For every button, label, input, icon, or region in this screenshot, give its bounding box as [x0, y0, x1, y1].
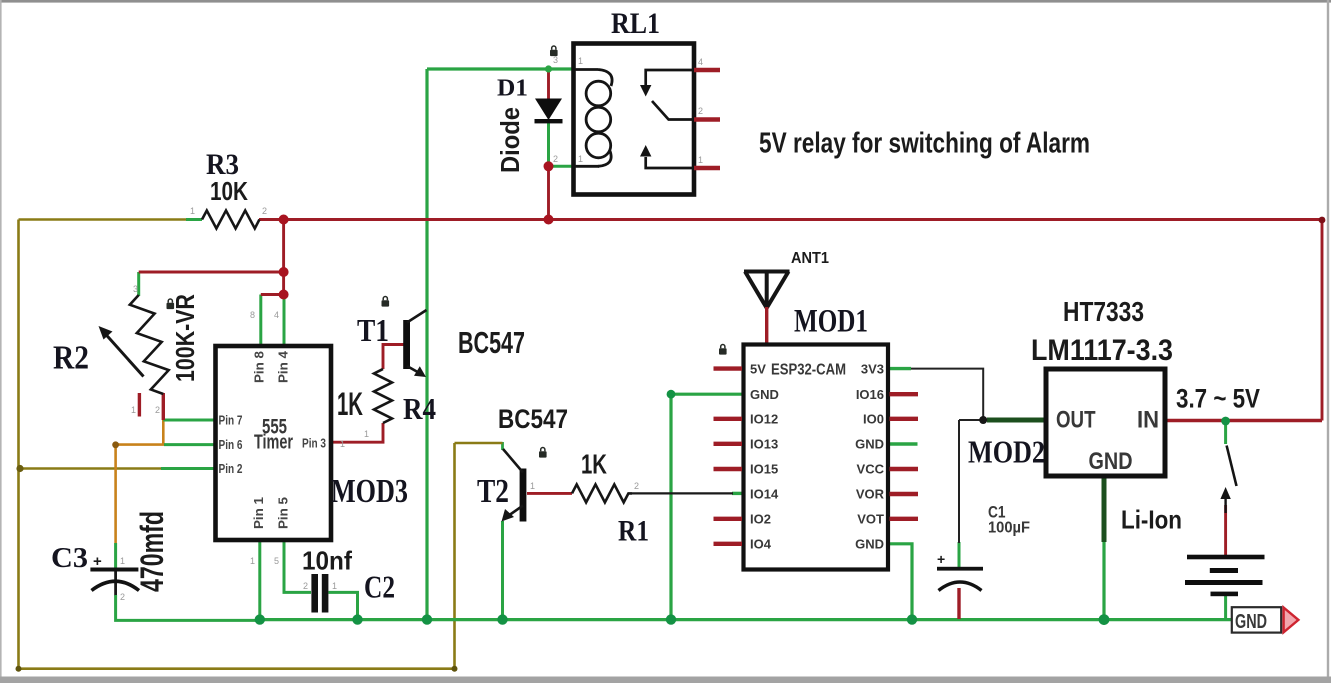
- svg-text:3: 3: [553, 55, 558, 65]
- resistor R1 1K zigzag: [572, 484, 632, 502]
- op-amp MOD3 555 timer box: [216, 346, 332, 540]
- node green D1 top junction: [545, 65, 552, 72]
- wire olive bottom run: [19, 667, 455, 670]
- svg-text:2: 2: [120, 592, 125, 602]
- svg-text:Pin 6: Pin 6: [219, 437, 243, 452]
- svg-text:8: 8: [250, 310, 255, 320]
- svg-text:IO12: IO12: [750, 412, 778, 427]
- svg-text:T2: T2: [477, 473, 509, 510]
- capacitor C3 top plate: [90, 568, 138, 572]
- svg-text:2: 2: [553, 154, 558, 164]
- wire olive horizontal to T2 collector: [455, 442, 503, 445]
- wire dark-green MOD2 GND stub: [1102, 475, 1107, 542]
- wire green 555 pin4: [283, 295, 286, 347]
- svg-text:GND: GND: [1089, 448, 1133, 475]
- svg-text:10K: 10K: [210, 176, 248, 206]
- node green switch junction: [1221, 417, 1230, 426]
- node green bus C2: [352, 614, 362, 624]
- lock icon T1: [382, 297, 390, 307]
- wire green battery bottom to bus: [1224, 595, 1227, 621]
- svg-text:1: 1: [364, 429, 369, 439]
- wire black C1 top lead: [958, 420, 960, 543]
- node green MOD1 GND corner: [667, 390, 676, 399]
- svg-text:R2: R2: [53, 340, 89, 377]
- svg-text:IO2: IO2: [750, 512, 771, 527]
- svg-text:OUT: OUT: [1056, 407, 1096, 434]
- wire olive 555 pin2 branch: [20, 467, 162, 470]
- node green bus T2 emitter: [497, 614, 507, 624]
- wire green C3 lower lead to bus: [116, 595, 260, 620]
- wire red ANT1 lead: [765, 307, 768, 345]
- svg-text:MOD1: MOD1: [794, 304, 868, 340]
- svg-text:2: 2: [303, 581, 308, 591]
- relay RL1 top contact with down arrow: [646, 70, 693, 85]
- svg-text:IN: IN: [1137, 407, 1159, 434]
- svg-text:Pin 1: Pin 1: [251, 497, 266, 529]
- wire black C3 inter-plate lead: [114, 570, 117, 596]
- svg-text:100µF: 100µF: [988, 520, 1030, 537]
- wire green T2 emitter to bus: [501, 521, 504, 620]
- node olive bottom-left corner: [16, 666, 22, 672]
- svg-text:Pin 2: Pin 2: [219, 461, 243, 476]
- svg-text:ANT1: ANT1: [791, 250, 829, 267]
- svg-text:1: 1: [332, 581, 337, 591]
- svg-text:5: 5: [274, 556, 279, 566]
- svg-text:Pin 4: Pin 4: [276, 350, 291, 383]
- node red branch junction: [279, 267, 289, 277]
- node green bus MOD1 GND: [666, 614, 676, 624]
- svg-text:5V: 5V: [750, 362, 766, 377]
- wire green C2 right to bus: [329, 592, 358, 619]
- wire orange vertical to C3: [114, 445, 117, 543]
- page frame bottom band: [0, 677, 1331, 684]
- relay RL1 bottom contact with up arrow: [646, 157, 693, 168]
- svg-text:ESP32-CAM: ESP32-CAM: [771, 362, 846, 379]
- svg-text:1: 1: [120, 556, 125, 566]
- capacitor C2 right plate: [322, 574, 329, 613]
- svg-text:VOR: VOR: [856, 487, 885, 502]
- svg-text:VCC: VCC: [857, 462, 885, 477]
- capacitor C3 curved plate: [92, 581, 140, 590]
- svg-text:BC547: BC547: [498, 404, 568, 434]
- node green bus pin1: [255, 614, 265, 624]
- MOD1 left pin stubs red: [714, 369, 743, 544]
- wire red T1 base: [383, 345, 404, 370]
- svg-text:C3: C3: [51, 542, 88, 574]
- svg-text:VOT: VOT: [857, 512, 884, 527]
- svg-text:1K: 1K: [581, 449, 607, 480]
- svg-text:2: 2: [634, 481, 639, 491]
- MOD1 right pin stubs red: [890, 394, 919, 519]
- svg-text:1K: 1K: [337, 386, 363, 422]
- svg-text:IO15: IO15: [750, 462, 778, 477]
- transistor T1 emitter: [407, 366, 422, 375]
- svg-text:Pin 7: Pin 7: [219, 413, 243, 428]
- wire red main horizontal rail: [259, 218, 1322, 221]
- wire green MOD1 right GND row4 stub: [889, 442, 918, 445]
- svg-text:GND: GND: [1235, 611, 1267, 633]
- svg-text:IO14: IO14: [750, 487, 779, 502]
- transistor T2 bar: [520, 469, 527, 522]
- page frame right: [1327, 0, 1329, 683]
- node green bus MOD1 right GND: [907, 614, 917, 624]
- svg-text:2: 2: [698, 106, 703, 116]
- svg-text:470mfd: 470mfd: [134, 511, 170, 592]
- svg-text:3: 3: [133, 284, 138, 294]
- wire red C1 bottom to bus: [957, 588, 960, 619]
- wire green C1 upper lead: [958, 542, 961, 568]
- wire red branch to R2: [139, 271, 284, 274]
- svg-text:1: 1: [578, 56, 583, 66]
- svg-text:C2: C2: [364, 569, 395, 605]
- wire green MOD1 GND left: [671, 394, 743, 619]
- svg-text:IO13: IO13: [750, 437, 778, 452]
- wire green switch top stub: [1224, 421, 1227, 444]
- relay RL1 box: [574, 44, 695, 195]
- relay RL1 coil: [575, 70, 612, 167]
- wire green top horizontal to relay: [427, 67, 573, 70]
- node olive bottom-right corner: [452, 666, 458, 672]
- svg-text:MOD3: MOD3: [331, 473, 408, 510]
- svg-text:4: 4: [274, 310, 279, 320]
- relay RL1 pin 4 stub: [694, 68, 720, 72]
- capacitor C1 curved plate: [939, 582, 982, 591]
- svg-text:Pin 3: Pin 3: [302, 436, 326, 451]
- svg-text:Pin 8: Pin 8: [252, 351, 267, 383]
- node red top-right corner: [1319, 217, 1326, 224]
- regulator MOD2 box: [1046, 369, 1165, 476]
- lock icon T2: [539, 448, 547, 458]
- svg-text:GND: GND: [750, 387, 779, 402]
- resistor R3 10K zigzag: [202, 211, 259, 229]
- wire olive top run to R3: [19, 218, 187, 221]
- node red D1 rail junction: [544, 215, 554, 225]
- node green bus relay feed: [422, 614, 432, 624]
- switch blade at battery: [1227, 446, 1237, 487]
- svg-text:GND: GND: [855, 537, 884, 552]
- svg-text:2: 2: [262, 206, 267, 216]
- wire red R2 right leg: [162, 393, 165, 420]
- svg-text:HT7333: HT7333: [1063, 296, 1144, 327]
- svg-text:R1: R1: [618, 515, 649, 548]
- svg-text:3.7 ~ 5V: 3.7 ~ 5V: [1176, 384, 1260, 414]
- module MOD1 ESP32-CAM box: [744, 345, 889, 570]
- svg-text:D1: D1: [497, 76, 528, 102]
- svg-text:Pin 5: Pin 5: [276, 497, 291, 529]
- lock icon RL1: [550, 46, 558, 56]
- wire red drop from R3 junction: [282, 220, 285, 295]
- page frame left: [0, 0, 2, 683]
- battery plate short upper: [1210, 568, 1238, 573]
- battery plate long bottom: [1185, 580, 1263, 585]
- relay RL1 switch blade: [652, 101, 693, 120]
- svg-text:GND: GND: [855, 437, 884, 452]
- svg-text:RL1: RL1: [611, 7, 660, 40]
- wire green R2 top lead: [137, 272, 140, 296]
- capacitor C1 top plate: [937, 567, 983, 571]
- switch arrow: [1224, 494, 1226, 513]
- node black OUT junction: [979, 416, 987, 424]
- svg-text:5V relay for switching of Alar: 5V relay for switching of Alarm: [759, 128, 1090, 160]
- wire green MOD2 GND lower: [1102, 541, 1105, 620]
- svg-text:BC547: BC547: [458, 325, 525, 360]
- svg-text:Timer: Timer: [254, 432, 293, 454]
- svg-text:+: +: [93, 553, 102, 570]
- pin number marks gray: [120, 55, 703, 602]
- svg-text:1: 1: [530, 481, 535, 491]
- supply flag GND box: [1232, 607, 1281, 632]
- svg-text:IO16: IO16: [856, 387, 884, 402]
- wire dark-green MOD2 OUT stub: [987, 418, 1046, 423]
- svg-text:1: 1: [250, 556, 255, 566]
- diode D1 cathode bar: [535, 119, 563, 123]
- wire olive right vertical to T2 collector: [453, 443, 456, 669]
- supply flag GND arrow: [1284, 608, 1299, 633]
- svg-text:LM1117-3.3: LM1117-3.3: [1031, 334, 1173, 367]
- relay RL1 pin 2 stub: [694, 117, 720, 121]
- svg-text:R4: R4: [403, 391, 436, 426]
- relay RL1 pin 1 stub: [694, 166, 720, 170]
- node olive pin2 junction: [16, 465, 23, 472]
- svg-text:+: +: [937, 551, 945, 567]
- node red D1 coil junction: [544, 161, 554, 171]
- wire green 555 pin5 to C2: [284, 540, 311, 592]
- wire green C3 upper lead: [114, 543, 117, 568]
- wire red branch to 555 pin8: [261, 293, 284, 296]
- wire orange from R2 leg down: [162, 420, 165, 445]
- battery plate short lower: [1211, 592, 1239, 597]
- potentiometer R2 wiper arrow: [105, 334, 144, 377]
- svg-text:T1: T1: [357, 312, 389, 348]
- wire green R3 left stub: [186, 218, 202, 221]
- wire orange horizontal: [116, 443, 164, 446]
- svg-text:Li-Ion: Li-Ion: [1121, 505, 1182, 535]
- svg-text:2: 2: [155, 405, 160, 415]
- wire green MOD1 right GND row8 to bus: [889, 544, 913, 620]
- battery plate long top: [1187, 555, 1265, 560]
- svg-text:MOD2: MOD2: [968, 434, 1045, 470]
- wire green 555 pin8: [259, 295, 262, 347]
- svg-text:100K-VR: 100K-VR: [170, 294, 200, 382]
- transistor T1 collector: [407, 310, 427, 323]
- capacitor C2 left plate: [311, 574, 318, 613]
- wire black R1 to IO14: [632, 492, 733, 494]
- svg-text:3V3: 3V3: [861, 362, 884, 377]
- antenna ANT1: [744, 272, 790, 309]
- svg-text:IO4: IO4: [750, 537, 772, 552]
- node orange junction: [112, 441, 119, 448]
- potentiometer R2 zigzag: [130, 295, 169, 394]
- resistor R4 1K zigzag: [374, 369, 392, 423]
- wire red battery top to switch: [1224, 505, 1227, 556]
- node red R3 junction: [279, 215, 289, 225]
- wire green IO14 stub: [732, 492, 744, 495]
- transistor T2 emitter: [508, 506, 523, 517]
- wire green 555 pin6: [164, 443, 216, 446]
- wire green bottom bus: [260, 618, 1232, 621]
- wire green 555 pin1 to bus: [258, 540, 261, 620]
- svg-text:1: 1: [190, 206, 195, 216]
- wire green D1 cathode to relay coil bottom: [549, 120, 575, 166]
- wire red IN rail: [1165, 419, 1322, 422]
- lock icon R2: [167, 299, 175, 309]
- wire olive left vertical: [17, 220, 20, 669]
- diode D1 triangle: [535, 99, 562, 121]
- svg-text:1: 1: [340, 439, 345, 449]
- wire red R4 bottom to 555 pin3: [331, 423, 383, 442]
- svg-text:10nf: 10nf: [302, 546, 352, 576]
- wire red D1 bottom to rail: [547, 166, 550, 219]
- svg-text:4: 4: [698, 57, 703, 67]
- wire red D1 anode from rail: [547, 71, 550, 99]
- svg-text:IO0: IO0: [863, 412, 884, 427]
- wire red R2 left leg: [138, 393, 141, 417]
- wire red T2 base to R1: [527, 492, 572, 495]
- svg-text:1: 1: [578, 154, 583, 164]
- svg-text:1: 1: [131, 405, 136, 415]
- wire black 3V3 to MOD2: [911, 369, 983, 420]
- wire green long vertical relay feed: [425, 69, 428, 620]
- wire green 555 pin2: [161, 467, 216, 470]
- transistor T2 collector: [503, 449, 523, 473]
- svg-text:Diode: Diode: [495, 107, 525, 173]
- wire black OUT thin segment: [959, 419, 988, 421]
- wire red right edge vertical: [1321, 220, 1324, 421]
- wire green 555 pin7: [163, 419, 215, 422]
- svg-text:1: 1: [698, 155, 703, 165]
- lock icon MOD1: [719, 345, 727, 355]
- wire green MOD1 3V3 stub: [889, 367, 912, 370]
- wire green T2 collector jog: [501, 442, 504, 450]
- node red pin8 junction: [279, 290, 289, 300]
- page frame top: [0, 0, 1331, 3]
- node green bus MOD2 GND: [1099, 614, 1110, 625]
- transistor T1 bar: [403, 320, 410, 369]
